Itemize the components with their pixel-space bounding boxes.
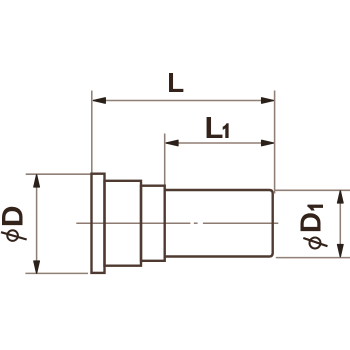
- extension line L left: [91, 91, 93, 174]
- label phiD: phi slash: [1, 232, 27, 239]
- svg-text:D: D: [296, 212, 328, 233]
- dimension line phiD1: [339, 191, 341, 257]
- part body: collar block: [105, 181, 142, 266]
- svg-text:L: L: [205, 110, 224, 145]
- arrow phiD bottom: [34, 261, 40, 273]
- label phiD1: phi slash: [303, 238, 327, 246]
- extension line phiD1 top: [274, 189, 350, 191]
- arrow L left: [94, 98, 106, 103]
- centerline: [76, 222, 278, 224]
- extension line phiD1 bottom: [276, 257, 350, 259]
- arrow phiD top: [34, 175, 40, 187]
- dimension line L1: [166, 142, 274, 144]
- svg-text:D: D: [0, 205, 29, 227]
- arrow phiD1 top: [338, 191, 344, 203]
- arrow L1 left: [166, 140, 178, 145]
- extension line phiD bottom: [25, 272, 88, 274]
- svg-text:L: L: [167, 67, 184, 98]
- label phiD1: subscript 1: [307, 205, 323, 211]
- part body: step section: [141, 186, 165, 261]
- arrow L right: [262, 98, 274, 103]
- extension line L1 left: [164, 134, 166, 186]
- dimension line phiD: [36, 175, 38, 273]
- label phiD1: phi circle: [310, 238, 321, 249]
- part body: flange: [92, 174, 105, 273]
- extension line L/L1 right: [274, 91, 276, 194]
- part body: shaft: [165, 190, 273, 257]
- arrow phiD1 bottom: [338, 245, 344, 257]
- extension line phiD top: [26, 173, 92, 175]
- arrow L1 right: [262, 140, 274, 145]
- dimension line L: [93, 100, 274, 102]
- label phiD: phi circle: [7, 230, 18, 241]
